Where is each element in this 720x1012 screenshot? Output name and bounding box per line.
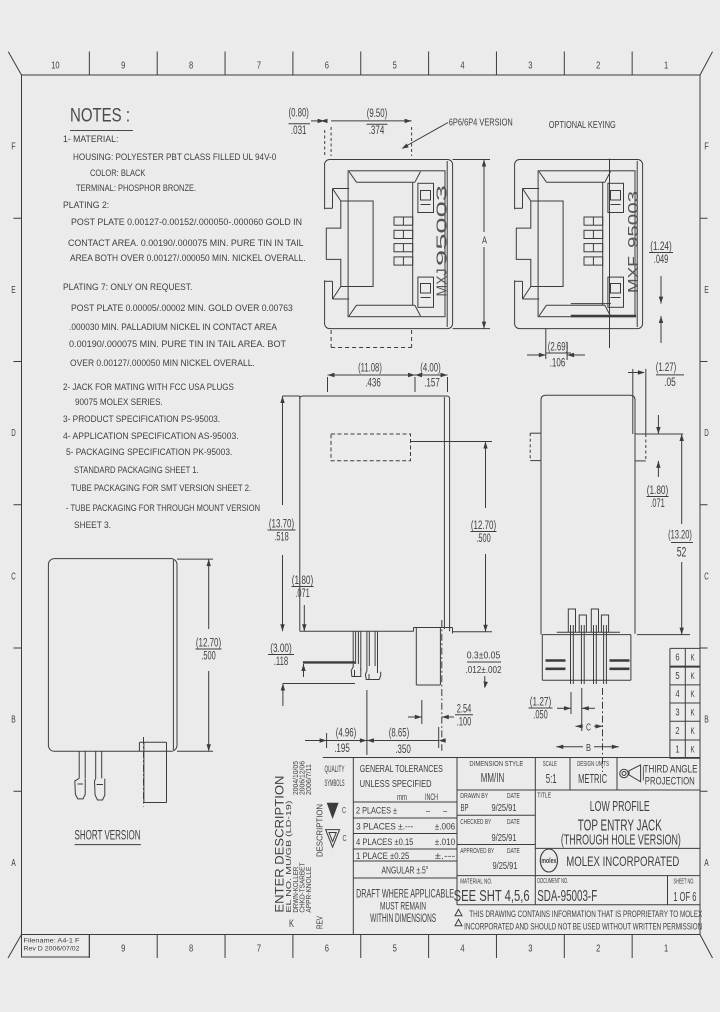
svg-text:4: 4 (675, 689, 680, 700)
svg-text:- TUBE PACKAGING FOR THROUGH M: - TUBE PACKAGING FOR THROUGH MOUNT VERSI… (66, 503, 260, 514)
svg-text:E: E (704, 285, 709, 296)
svg-text:3: 3 (528, 61, 533, 72)
svg-text:SCALE: SCALE (543, 759, 557, 768)
svg-text:(THROUGH HOLE VERSION): (THROUGH HOLE VERSION) (561, 832, 681, 848)
svg-text:—: — (426, 806, 430, 817)
svg-text:QUALITY: QUALITY (325, 764, 345, 774)
svg-text:3 PLACES ±.---: 3 PLACES ±.--- (356, 822, 413, 833)
svg-text:PROJECTION: PROJECTION (645, 776, 695, 788)
svg-text:.049: .049 (654, 254, 668, 266)
svg-text:MXJ: MXJ (435, 269, 451, 297)
svg-text:(12.70): (12.70) (196, 638, 221, 650)
svg-text:.000030 MIN. PALLADIUM NICKEL: .000030 MIN. PALLADIUM NICKEL IN CONTACT… (69, 322, 277, 333)
svg-text:WITHIN DIMENSIONS: WITHIN DIMENSIONS (370, 913, 436, 925)
svg-text:9/25/91: 9/25/91 (492, 802, 517, 814)
svg-text:(1.27): (1.27) (656, 362, 677, 374)
svg-text:52: 52 (677, 544, 687, 560)
svg-text:.374: .374 (369, 125, 385, 137)
svg-text:E: E (11, 285, 16, 296)
svg-text:.050: .050 (533, 710, 547, 722)
svg-text:4: 4 (460, 61, 465, 72)
svg-text:9: 9 (121, 61, 126, 72)
svg-text:OVER 0.00127/.000050 MIN NICKE: OVER 0.00127/.000050 MIN NICKEL OVERALL. (70, 358, 255, 369)
svg-text:REV: REV (316, 915, 325, 929)
svg-text:SHORT VERSION: SHORT VERSION (75, 828, 141, 843)
svg-text:.436: .436 (365, 378, 381, 390)
svg-text:2: 2 (675, 726, 680, 737)
svg-text:A: A (11, 858, 16, 869)
svg-text:Filename: A4-1 F: Filename: A4-1 F (24, 938, 80, 945)
svg-text:NOTES :: NOTES : (70, 106, 130, 127)
svg-text:.195: .195 (334, 743, 350, 755)
svg-text:UNLESS SPECIFIED: UNLESS SPECIFIED (360, 778, 432, 790)
svg-text:DOCUMENT NO.: DOCUMENT NO. (537, 878, 568, 885)
svg-text:DESIGN UNITS: DESIGN UNITS (577, 759, 609, 768)
svg-text:SHEET 3.: SHEET 3. (74, 520, 111, 531)
svg-text:5: 5 (393, 61, 398, 72)
svg-text:THIRD ANGLE: THIRD ANGLE (644, 763, 698, 775)
svg-text:(4.96): (4.96) (336, 728, 357, 740)
svg-text:(3.00): (3.00) (270, 643, 292, 655)
svg-text:D: D (11, 428, 16, 439)
svg-text:6: 6 (675, 653, 680, 664)
svg-text:±.006: ±.006 (435, 822, 456, 833)
svg-text:4 PLACES ±0.15: 4 PLACES ±0.15 (356, 837, 413, 848)
svg-text:(2.69): (2.69) (548, 342, 569, 354)
svg-text:DRAFT WHERE APPLICABLE: DRAFT WHERE APPLICABLE (356, 889, 454, 901)
svg-text:COLOR: BLACK: COLOR: BLACK (90, 168, 146, 179)
svg-text:1- MATERIAL:: 1- MATERIAL: (63, 134, 118, 145)
svg-text:(13.20): (13.20) (668, 530, 692, 542)
svg-text:5- PACKAGING SPECIFICATION PK-: 5- PACKAGING SPECIFICATION PK-95003. (66, 447, 232, 458)
svg-text:4: 4 (460, 944, 465, 955)
svg-text:HOUSING: POLYESTER PBT CLASS F: HOUSING: POLYESTER PBT CLASS FILLED UL 9… (73, 152, 276, 163)
svg-text:(4.00): (4.00) (420, 363, 441, 375)
svg-text:10: 10 (51, 61, 60, 72)
svg-text:APPROVED BY: APPROVED BY (460, 848, 494, 855)
svg-text:C: C (342, 806, 346, 815)
svg-text:2.54: 2.54 (457, 703, 472, 715)
svg-text:(0.80): (0.80) (289, 108, 310, 120)
svg-text:CHECKED BY: CHECKED BY (460, 819, 491, 826)
svg-text:2: 2 (596, 61, 601, 72)
svg-text:.05: .05 (664, 377, 676, 389)
svg-text:C: C (586, 721, 591, 733)
svg-text:—: — (443, 806, 447, 817)
svg-text:GENERAL TOLERANCES: GENERAL TOLERANCES (360, 763, 443, 775)
svg-text:CONTACT AREA. 0.00190/.000075: CONTACT AREA. 0.00190/.000075 MIN. PURE … (68, 238, 304, 249)
svg-text:K: K (691, 671, 695, 681)
svg-text:0.00190/.000075 MIN. PURE TIN: 0.00190/.000075 MIN. PURE TIN IN TAIL AR… (69, 339, 286, 350)
svg-text:1: 1 (664, 61, 669, 72)
svg-text:.118: .118 (274, 656, 288, 668)
svg-text:SHEET NO.: SHEET NO. (673, 879, 694, 886)
svg-text:MUST REMAIN: MUST REMAIN (380, 901, 426, 913)
svg-text:3: 3 (675, 707, 680, 718)
svg-text:K: K (289, 918, 294, 930)
svg-text:K: K (691, 726, 695, 736)
svg-text:5: 5 (675, 671, 680, 682)
svg-text:1: 1 (664, 944, 669, 955)
svg-text:(1.24): (1.24) (650, 241, 672, 253)
svg-text:TERMINAL: PHOSPHOR BRONZE.: TERMINAL: PHOSPHOR BRONZE. (76, 183, 196, 194)
svg-text:MOLEX INCORPORATED: MOLEX INCORPORATED (566, 853, 679, 869)
svg-text:8: 8 (189, 61, 194, 72)
svg-text:.071: .071 (295, 588, 309, 600)
svg-text:THIS DRAWING CONTAINS INFORMAT: THIS DRAWING CONTAINS INFORMATION THAT I… (469, 909, 702, 920)
svg-text:POST PLATE 0.00005/.00002 MIN.: POST PLATE 0.00005/.00002 MIN. GOLD OVER… (71, 303, 293, 314)
svg-text:APPR-KNOLLE: APPR-KNOLLE (304, 867, 313, 913)
svg-text:6: 6 (325, 61, 330, 72)
svg-text:mm: mm (397, 792, 407, 802)
svg-text:K: K (691, 707, 695, 717)
svg-text:5:1: 5:1 (546, 771, 557, 786)
svg-text:Rev D 2006/07/02: Rev D 2006/07/02 (24, 946, 80, 953)
svg-text:1: 1 (675, 744, 680, 755)
svg-text:molex: molex (541, 858, 556, 865)
svg-text:2- JACK FOR MATING WITH FCC US: 2- JACK FOR MATING WITH FCC USA PLUGS (63, 382, 234, 393)
svg-text:1 OF 6: 1 OF 6 (673, 889, 696, 904)
svg-text:1 PLACE ±0.25: 1 PLACE ±0.25 (356, 851, 409, 862)
svg-text:MATERIAL NO.: MATERIAL NO. (460, 879, 492, 886)
svg-text:K: K (691, 744, 695, 754)
svg-text:95003: 95003 (626, 191, 642, 248)
svg-text:(9.50): (9.50) (367, 108, 388, 120)
svg-text:BP: BP (461, 803, 469, 814)
svg-text:4- APPLICATION SPECIFICATION A: 4- APPLICATION SPECIFICATION AS-95003. (63, 431, 239, 442)
svg-text:(1.80): (1.80) (292, 575, 314, 587)
svg-text:DATE: DATE (507, 848, 520, 855)
svg-text:±.010: ±.010 (435, 837, 456, 848)
svg-text:.012±.002: .012±.002 (466, 664, 502, 676)
svg-text:.350: .350 (395, 744, 411, 756)
svg-text:MM/IN: MM/IN (481, 770, 505, 785)
svg-text:C: C (343, 834, 347, 843)
svg-text:ANGULAR ±.5°: ANGULAR ±.5° (382, 865, 429, 876)
svg-text:95003: 95003 (435, 185, 451, 266)
svg-text:SEE SHT 4,5,6: SEE SHT 4,5,6 (454, 888, 530, 905)
svg-text:D: D (704, 428, 709, 439)
svg-text:SDA-95003-F: SDA-95003-F (537, 888, 597, 905)
svg-text:.157: .157 (424, 378, 440, 390)
svg-text:(8.65): (8.65) (389, 728, 410, 740)
svg-text:5: 5 (393, 944, 398, 955)
svg-text:PLATING 7: ONLY ON REQUEST.: PLATING 7: ONLY ON REQUEST. (63, 282, 192, 293)
svg-text:2006/7/11: 2006/7/11 (304, 764, 313, 795)
svg-text:(12.70): (12.70) (471, 520, 496, 532)
svg-text:9: 9 (121, 944, 126, 955)
svg-text:B: B (586, 742, 591, 754)
svg-text:.518: .518 (274, 532, 288, 544)
svg-text:C: C (704, 571, 709, 582)
svg-text:3: 3 (528, 944, 533, 955)
svg-text:(1.27): (1.27) (530, 697, 552, 709)
svg-text:9/25/91: 9/25/91 (492, 832, 517, 844)
svg-text:(1.80): (1.80) (647, 485, 669, 497)
svg-text:.500: .500 (476, 533, 490, 545)
svg-text:STANDARD PACKAGING SHEET 1.: STANDARD PACKAGING SHEET 1. (74, 465, 199, 476)
svg-text:90075 MOLEX SERIES.: 90075 MOLEX SERIES. (75, 397, 163, 408)
svg-text:OPTIONAL KEYING: OPTIONAL KEYING (549, 119, 616, 131)
svg-text:6P6/6P4 VERSION: 6P6/6P4 VERSION (449, 117, 513, 129)
svg-text:AREA BOTH OVER 0.00127/.000050: AREA BOTH OVER 0.00127/.000050 MIN. NICK… (70, 253, 306, 264)
svg-text:POST PLATE 0.00127-0.00152/.00: POST PLATE 0.00127-0.00152/.000050-.0000… (71, 217, 302, 228)
svg-text:PLATING 2:: PLATING 2: (63, 200, 109, 211)
svg-text:DATE: DATE (507, 793, 520, 800)
svg-text:9/25/91: 9/25/91 (493, 860, 518, 872)
svg-text:B: B (704, 715, 709, 726)
svg-text:7: 7 (257, 944, 262, 955)
svg-text:.100: .100 (457, 716, 471, 728)
svg-text:K: K (691, 689, 695, 699)
svg-text:.500: .500 (201, 651, 215, 663)
svg-text:3- PRODUCT SPECIFICATION PS-95: 3- PRODUCT SPECIFICATION PS-95003. (63, 414, 220, 425)
svg-text:INCORPORATED AND SHOULD NOT BE: INCORPORATED AND SHOULD NOT BE USED WITH… (464, 921, 702, 932)
svg-text:F: F (11, 142, 16, 153)
svg-text:±.---: ±.--- (435, 851, 456, 862)
svg-text:B: B (11, 715, 16, 726)
svg-text:A: A (482, 235, 487, 247)
svg-text:A: A (704, 858, 709, 869)
svg-text:(13.70): (13.70) (269, 519, 294, 531)
svg-text:TUBE PACKAGING FOR SMT VERSION: TUBE PACKAGING FOR SMT VERSION SHEET 2. (71, 483, 251, 494)
svg-text:SYMBOLS: SYMBOLS (325, 778, 345, 788)
svg-text:DRAWN BY: DRAWN BY (460, 793, 488, 800)
svg-text:6: 6 (325, 944, 330, 955)
svg-text:C: C (11, 571, 16, 582)
svg-text:(11.08): (11.08) (358, 363, 382, 375)
svg-text:LOW PROFILE: LOW PROFILE (590, 799, 650, 815)
svg-text:DATE: DATE (507, 819, 520, 826)
svg-text:TITLE: TITLE (537, 793, 551, 800)
svg-text:.106: .106 (550, 358, 566, 370)
svg-text:F: F (704, 142, 709, 153)
svg-text:8: 8 (189, 944, 194, 955)
svg-text:INCH: INCH (425, 792, 438, 802)
svg-text:MXF: MXF (626, 256, 642, 293)
svg-text:.031: .031 (291, 125, 307, 137)
svg-text:2 PLACES ±: 2 PLACES ± (356, 806, 397, 817)
svg-text:DESCRIPTION: DESCRIPTION (316, 804, 325, 857)
svg-text:7: 7 (257, 61, 262, 72)
svg-text:DIMENSION STYLE: DIMENSION STYLE (469, 759, 523, 768)
svg-text:K: K (691, 653, 695, 663)
svg-text:2: 2 (596, 944, 601, 955)
svg-text:0.3±0.05: 0.3±0.05 (467, 650, 501, 662)
svg-text:METRIC: METRIC (578, 771, 607, 786)
svg-text:.071: .071 (650, 498, 664, 510)
